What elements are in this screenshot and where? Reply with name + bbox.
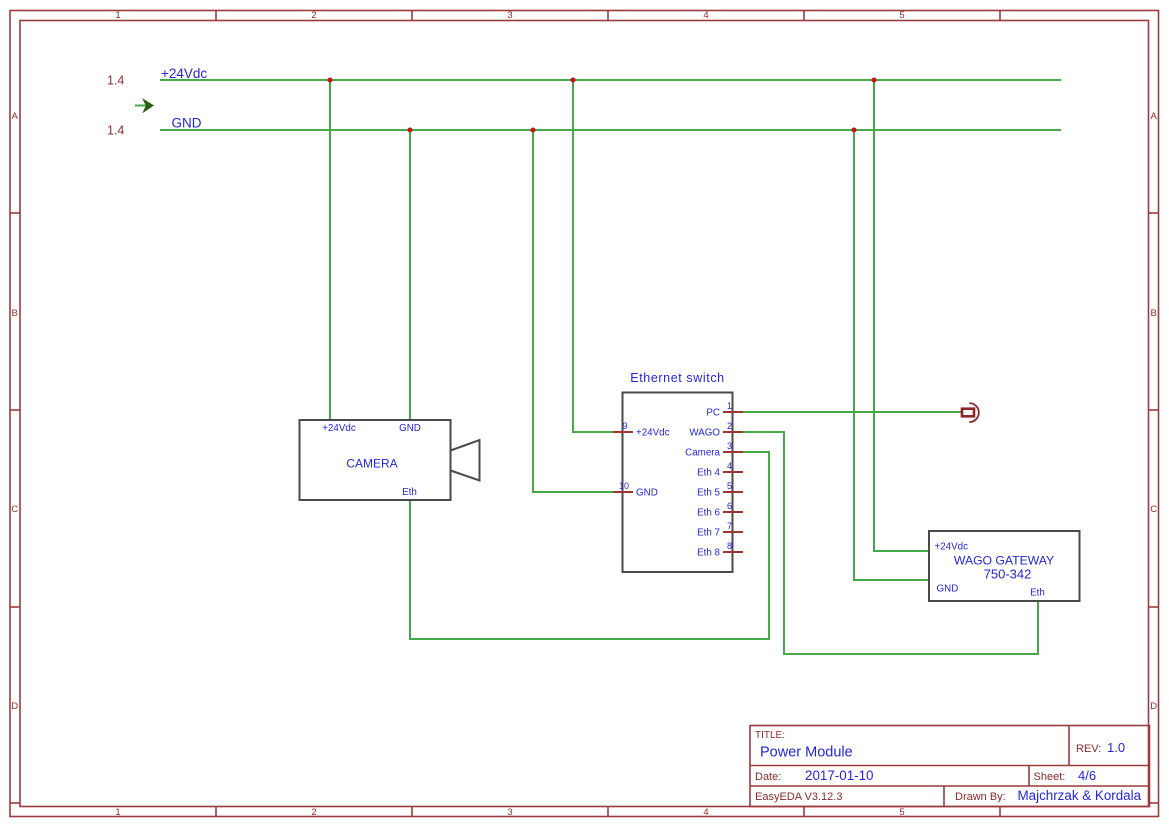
svg-text:CAMERA: CAMERA xyxy=(346,457,397,471)
svg-text:D: D xyxy=(1150,701,1157,712)
svg-text:WAGO: WAGO xyxy=(689,428,720,439)
svg-text:+24Vdc: +24Vdc xyxy=(636,428,670,439)
svg-text:Eth 6: Eth 6 xyxy=(697,508,720,519)
junction on +24Vdc at x=874 xyxy=(872,78,877,83)
svg-text:Eth 5: Eth 5 xyxy=(697,488,720,499)
svg-text:Majchrzak & Kordala: Majchrzak & Kordala xyxy=(1018,788,1142,803)
junction on GND at x=854 xyxy=(852,128,857,133)
svg-text:3: 3 xyxy=(507,807,512,818)
svg-text:Drawn By:: Drawn By: xyxy=(955,791,1006,803)
svg-text:Eth 7: Eth 7 xyxy=(697,528,720,539)
wire GND rail xyxy=(160,129,1061,131)
svg-text:C: C xyxy=(11,504,18,515)
svg-text:A: A xyxy=(1151,111,1158,122)
svg-text:B: B xyxy=(12,308,18,319)
svg-text:8: 8 xyxy=(727,541,732,551)
svg-text:3: 3 xyxy=(507,10,512,21)
svg-text:2: 2 xyxy=(311,10,316,21)
junction on +24Vdc at x=573 xyxy=(571,78,576,83)
svg-text:C: C xyxy=(1150,504,1157,515)
svg-text:9: 9 xyxy=(622,421,627,431)
title block xyxy=(750,726,1150,807)
wire switch PC to connector xyxy=(743,411,962,413)
pin 2 WAGO xyxy=(689,421,743,439)
svg-text:TITLE:: TITLE: xyxy=(755,730,785,741)
svg-text:2017-01-10: 2017-01-10 xyxy=(805,768,874,783)
svg-text:GND: GND xyxy=(937,584,959,595)
junction on GND at x=410 xyxy=(408,128,413,133)
svg-text:1.4: 1.4 xyxy=(107,74,124,88)
pin 9 +24Vdc xyxy=(613,421,670,439)
wire GND to gateway xyxy=(854,130,929,580)
svg-text:1.4: 1.4 xyxy=(107,124,124,138)
svg-text:6: 6 xyxy=(727,501,732,511)
svg-text:Ethernet switch: Ethernet switch xyxy=(630,371,724,385)
pin 10 GND xyxy=(613,481,658,499)
wago gateway box xyxy=(929,531,1080,601)
svg-text:PC: PC xyxy=(706,408,720,419)
camera lens trapezoid xyxy=(451,440,480,481)
wire +24Vdc to gateway xyxy=(874,80,929,551)
svg-text:10: 10 xyxy=(619,481,629,491)
svg-text:GND: GND xyxy=(399,423,421,434)
svg-text:WAGO GATEWAY: WAGO GATEWAY xyxy=(954,554,1054,568)
pin 3 Camera xyxy=(685,441,743,459)
svg-text:750-342: 750-342 xyxy=(984,567,1032,582)
svg-text:Camera: Camera xyxy=(685,448,720,459)
svg-text:5: 5 xyxy=(899,807,904,818)
wire +24Vdc to switch pin 9 xyxy=(573,80,613,432)
junction on GND at x=533 xyxy=(531,128,536,133)
wire switch WAGO to gateway Eth xyxy=(743,432,1038,654)
svg-text:Sheet:: Sheet: xyxy=(1034,771,1066,783)
svg-text:Eth: Eth xyxy=(402,487,417,498)
svg-text:2: 2 xyxy=(727,421,732,431)
svg-text:+24Vdc: +24Vdc xyxy=(161,66,207,81)
wire +24Vdc rail xyxy=(160,79,1061,81)
svg-text:3: 3 xyxy=(727,441,732,451)
svg-text:REV:: REV: xyxy=(1076,743,1101,755)
title block texts xyxy=(755,730,1101,803)
svg-text:4/6: 4/6 xyxy=(1078,768,1096,783)
svg-text:2: 2 xyxy=(311,807,316,818)
svg-text:4: 4 xyxy=(703,807,708,818)
ethernet switch box xyxy=(623,393,733,573)
svg-text:Power Module: Power Module xyxy=(760,745,853,761)
svg-text:5: 5 xyxy=(899,10,904,21)
camera U? box xyxy=(300,420,451,500)
svg-text:1: 1 xyxy=(115,10,120,21)
wire switch Camera to camera Eth xyxy=(410,452,769,639)
svg-text:1: 1 xyxy=(115,807,120,818)
pin 8 Eth 8 xyxy=(697,541,743,559)
pin 5 Eth 5 xyxy=(697,481,743,499)
wire GND to switch pin 10 xyxy=(533,130,613,492)
wire GND to camera xyxy=(409,130,411,420)
svg-text:7: 7 xyxy=(727,521,732,531)
svg-text:1.0: 1.0 xyxy=(1107,740,1125,755)
svg-text:GND: GND xyxy=(172,116,202,131)
svg-text:A: A xyxy=(12,111,19,122)
svg-text:GND: GND xyxy=(636,488,658,499)
pin 7 Eth 7 xyxy=(697,521,743,539)
svg-text:1: 1 xyxy=(727,401,732,411)
junction on +24Vdc at x=330 xyxy=(328,78,333,83)
svg-text:+24Vdc: +24Vdc xyxy=(322,423,356,434)
svg-text:B: B xyxy=(1151,308,1157,319)
svg-text:+24Vdc: +24Vdc xyxy=(935,542,969,553)
svg-text:D: D xyxy=(11,701,18,712)
svg-text:EasyEDA V3.12.3: EasyEDA V3.12.3 xyxy=(755,791,842,803)
pin 1 PC xyxy=(706,401,743,419)
svg-text:Eth: Eth xyxy=(1030,588,1045,599)
pin 4 Eth 4 xyxy=(697,461,743,479)
svg-text:Eth 4: Eth 4 xyxy=(697,468,720,479)
input arrow flag xyxy=(135,98,154,113)
svg-text:4: 4 xyxy=(703,10,708,21)
wire +24Vdc to camera xyxy=(329,80,331,420)
connector P? (PC) xyxy=(962,403,979,422)
svg-text:5: 5 xyxy=(727,481,732,491)
svg-text:Date:: Date: xyxy=(755,771,781,783)
pin 6 Eth 6 xyxy=(697,501,743,519)
svg-text:4: 4 xyxy=(727,461,732,471)
svg-text:Eth 8: Eth 8 xyxy=(697,548,720,559)
